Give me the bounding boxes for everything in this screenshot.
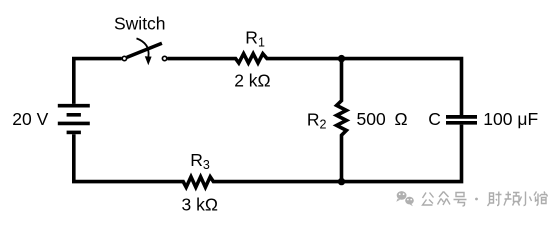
svg-text:2 kΩ: 2 kΩ (234, 71, 270, 91)
svg-text:500: 500 (357, 109, 386, 129)
svg-text:R1: R1 (245, 27, 265, 49)
svg-text:R3: R3 (190, 150, 210, 172)
svg-text:Ω: Ω (395, 109, 408, 129)
svg-text:C: C (428, 109, 441, 129)
svg-text:100 μF: 100 μF (483, 109, 538, 129)
svg-text:R2: R2 (307, 110, 327, 132)
svg-text:3 kΩ: 3 kΩ (182, 194, 218, 214)
svg-text:Switch: Switch (114, 14, 166, 34)
svg-text:20 V: 20 V (12, 109, 48, 129)
